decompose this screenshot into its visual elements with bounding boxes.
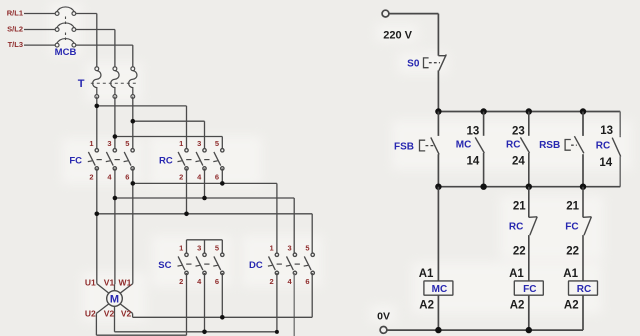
svg-text:A1: A1 — [509, 268, 524, 280]
svg-text:22: 22 — [513, 245, 526, 257]
svg-text:MC: MC — [456, 140, 472, 151]
svg-text:S0: S0 — [407, 59, 420, 70]
svg-text:6: 6 — [305, 277, 309, 286]
svg-text:MCB: MCB — [55, 47, 77, 58]
svg-text:A2: A2 — [510, 300, 525, 312]
svg-text:13: 13 — [600, 125, 613, 137]
svg-text:RC: RC — [506, 140, 520, 151]
svg-text:2: 2 — [89, 173, 93, 182]
svg-text:6: 6 — [215, 277, 219, 286]
svg-text:14: 14 — [599, 157, 612, 169]
svg-text:3: 3 — [197, 139, 201, 148]
svg-text:220 V: 220 V — [383, 30, 412, 42]
svg-text:FSB: FSB — [394, 141, 414, 152]
svg-text:21: 21 — [566, 200, 579, 212]
svg-text:A1: A1 — [419, 268, 434, 280]
svg-text:3: 3 — [197, 244, 201, 253]
svg-text:MC: MC — [432, 284, 448, 295]
svg-text:6: 6 — [215, 173, 219, 182]
svg-text:3: 3 — [288, 244, 292, 253]
svg-text:A2: A2 — [564, 300, 579, 312]
svg-text:DC: DC — [249, 260, 263, 271]
svg-text:SC: SC — [158, 260, 171, 271]
svg-text:V2: V2 — [121, 308, 132, 318]
svg-text:3: 3 — [107, 139, 111, 148]
svg-text:U2: U2 — [85, 308, 96, 318]
svg-text:FC: FC — [565, 221, 578, 232]
svg-text:1: 1 — [179, 244, 183, 253]
svg-text:T: T — [78, 78, 85, 90]
svg-text:R/L1: R/L1 — [7, 9, 23, 18]
svg-text:5: 5 — [215, 139, 219, 148]
svg-text:14: 14 — [467, 156, 480, 168]
svg-text:6: 6 — [125, 173, 129, 182]
svg-text:2: 2 — [179, 173, 183, 182]
svg-text:RC: RC — [577, 284, 591, 295]
svg-text:U1: U1 — [85, 277, 96, 287]
svg-text:RSB: RSB — [539, 140, 560, 151]
svg-text:2: 2 — [270, 277, 274, 286]
svg-text:RC: RC — [159, 156, 173, 167]
svg-text:M: M — [110, 294, 119, 306]
svg-text:V1: V1 — [104, 277, 115, 287]
svg-text:13: 13 — [467, 125, 480, 137]
svg-text:0V: 0V — [377, 311, 390, 323]
svg-text:5: 5 — [215, 244, 219, 253]
svg-text:24: 24 — [512, 156, 525, 168]
svg-text:22: 22 — [566, 245, 579, 257]
svg-text:2: 2 — [179, 277, 183, 286]
svg-text:A2: A2 — [419, 300, 434, 312]
svg-text:1: 1 — [179, 139, 183, 148]
svg-text:A1: A1 — [563, 268, 578, 280]
svg-text:S/L2: S/L2 — [7, 25, 23, 34]
svg-text:1: 1 — [270, 244, 274, 253]
svg-text:FC: FC — [69, 156, 82, 167]
svg-text:1: 1 — [89, 139, 93, 148]
svg-text:W1: W1 — [119, 277, 132, 287]
svg-text:T/L3: T/L3 — [8, 40, 23, 49]
svg-text:5: 5 — [305, 244, 309, 253]
svg-text:5: 5 — [125, 139, 129, 148]
svg-text:FC: FC — [523, 284, 536, 295]
svg-text:23: 23 — [512, 125, 525, 137]
svg-text:21: 21 — [513, 200, 526, 212]
svg-text:V2: V2 — [104, 308, 115, 318]
svg-text:RC: RC — [596, 140, 610, 151]
svg-text:RC: RC — [509, 221, 523, 232]
